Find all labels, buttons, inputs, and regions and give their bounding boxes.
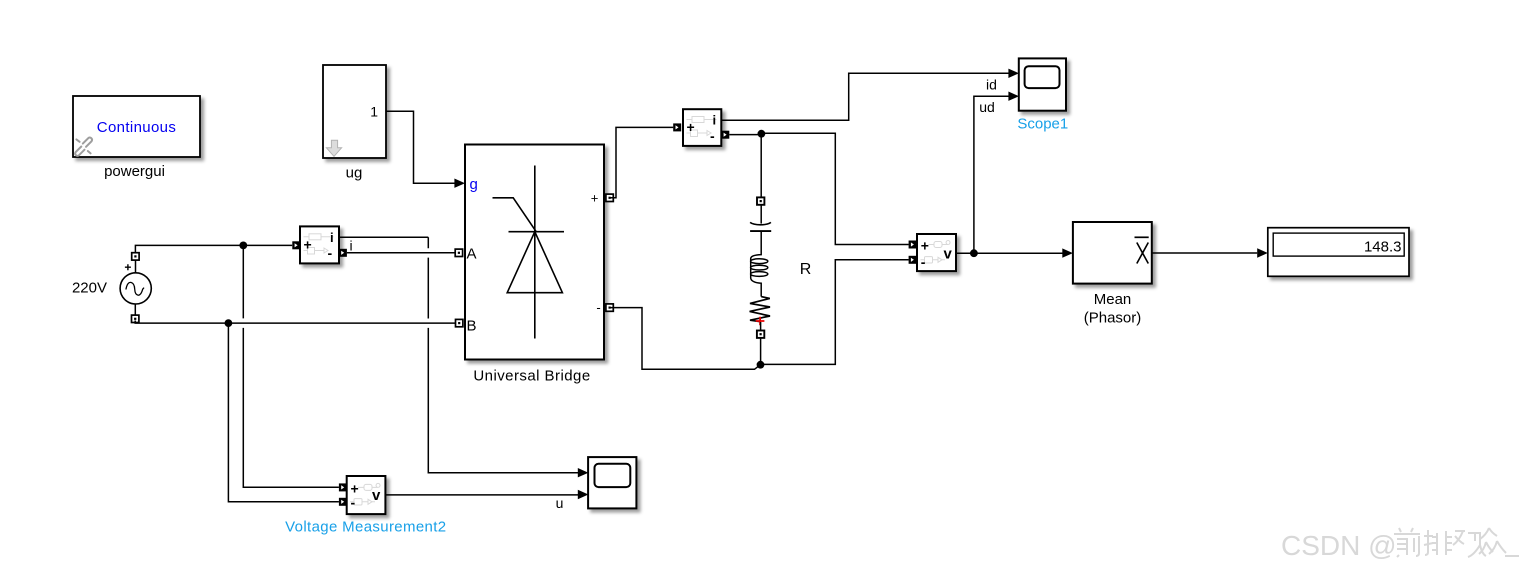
svg-text:+: + [591,191,599,206]
VM2 plus port [339,483,347,491]
red polarity plus [756,317,765,326]
junction dot bottom [225,319,233,327]
branch bottom wire to port [760,322,762,331]
svg-text:Universal Bridge: Universal Bridge [473,368,590,385]
current measurement I1 [300,226,339,263]
arrowhead Display input [1257,248,1268,257]
wire I2 minus to top junction [729,134,758,136]
svg-text:-: - [710,128,715,144]
svg-text:+: + [921,238,929,254]
svg-text:+: + [687,119,695,135]
svg-text:(Phasor): (Phasor) [1084,310,1142,327]
wire VM2 to scope u input 2 [386,494,578,496]
inductor [751,231,762,297]
scope u block [588,457,636,508]
source bottom port [132,315,139,322]
svg-text:ug: ug [346,165,363,182]
resistor [750,297,770,322]
svg-text:i: i [713,113,717,128]
V minus port [909,256,917,264]
source port stubs [134,260,136,315]
svg-text:ud: ud [979,99,995,115]
branch top port [757,197,764,204]
wire V output to Mean [956,252,1063,254]
svg-text:-: - [921,254,926,270]
svg-text:R: R [800,261,812,278]
junction dot R bottom [757,361,765,369]
svg-text:1: 1 [370,104,378,120]
watermark CJK glyph strokes [1394,528,1519,557]
svg-text:v: v [944,246,953,263]
source plus sign [125,264,131,270]
svg-text:u: u [556,495,564,511]
voltage measurement VM2 [347,476,386,514]
I2 minus port [721,131,729,139]
Universal Bridge block [465,145,604,360]
wire UB plus to I2 [610,127,674,197]
wire source top to I1 [135,245,292,252]
svg-text:Continuous: Continuous [97,119,176,136]
arrowhead Mean input [1062,248,1073,257]
svg-text:148.3: 148.3 [1364,239,1402,256]
svg-text:-: - [351,495,356,511]
V plus port [909,241,917,249]
svg-text:i: i [330,230,334,245]
powergui broken-link icon [75,138,92,156]
wire bottom junction down to VM2 minus [228,323,339,502]
Mean (Phasor) block [1073,222,1152,284]
wire UB minus to bottom junction [610,308,760,370]
junction dot R top [758,130,766,138]
arrowhead Scope1 input2 [1008,92,1019,101]
junction dot top [239,242,247,250]
svg-text:Voltage Measurement2: Voltage Measurement2 [285,519,446,536]
svg-text:powergui: powergui [104,163,165,180]
svg-text:Scope1: Scope1 [1017,116,1068,133]
wire I1 minus to A [347,252,455,254]
wire top junction down to VM2 plus [243,245,339,487]
ug constant block [323,65,386,158]
I1 minus port [339,249,347,257]
svg-text:A: A [467,246,477,263]
svg-text:+: + [304,237,312,253]
ug down-arrow icon [326,140,341,156]
I2 input port [673,123,681,131]
svg-text:-: - [328,245,333,261]
series RLC branch R [750,134,772,365]
svg-text:B: B [467,318,477,335]
svg-text:220V: 220V [72,280,107,297]
wire below branch [760,338,762,365]
capacitor [760,205,762,224]
port square UB plus [606,194,613,201]
junction dot ud [970,249,978,257]
wire source bottom to B [135,321,455,324]
svg-text:Mean: Mean [1094,291,1132,308]
port square UB minus [606,304,613,311]
wire ug to g [386,111,455,183]
svg-text:i: i [350,238,353,254]
arrowhead Scope1 input1 [1008,69,1019,78]
svg-text:CSDN @: CSDN @ [1281,530,1397,561]
wire Mean to Display [1152,252,1257,254]
svg-text:v: v [372,487,381,504]
branch top wire [760,134,762,198]
svg-text:g: g [470,176,478,193]
powergui block [73,96,200,157]
Scope1 block [1019,58,1066,110]
I1 input port [292,241,300,249]
thyristor symbol [493,166,565,339]
arrowhead scope u input1 [578,468,589,477]
Display block [1268,228,1409,277]
arrowhead g input [454,179,465,188]
current measurement I2 [683,109,721,146]
source top port [132,253,139,260]
wire I1 signal to scope u input 1 [339,237,578,472]
wire top junction to V plus [764,133,909,244]
svg-text:-: - [596,300,600,315]
arrowhead scope u input2 [578,490,589,499]
VM2 minus port [339,498,347,506]
AC source 220V [120,273,151,304]
voltage measurement V [917,234,956,271]
wire id from I2 to Scope1 [721,73,1008,120]
branch bottom port [757,331,764,338]
CSDN watermark [1281,530,1397,561]
port square A [455,249,462,256]
wire bottom junction to V minus [761,260,909,365]
port square B [456,319,463,326]
svg-text:id: id [986,77,997,93]
wire ud to Scope1 input2 [974,96,1009,253]
